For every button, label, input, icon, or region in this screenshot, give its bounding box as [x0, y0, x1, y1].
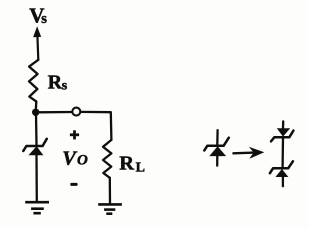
zener symbol single cathode bar — [204, 138, 229, 151]
wire Vs arrow up — [36, 36, 39, 60]
back-to-back zener bottom triangle — [275, 169, 288, 177]
back-to-back zener bottom lead — [282, 177, 284, 186]
wire terminal to RL corner — [81, 112, 112, 140]
svg-text:L: L — [136, 161, 145, 176]
wire zener to ground — [35, 155, 38, 202]
label minus — [70, 183, 77, 186]
svg-text:s: s — [41, 11, 47, 27]
node A junction dot — [32, 109, 39, 116]
ground right — [98, 204, 122, 213]
terminal open circle — [72, 108, 80, 116]
arrowhead Vs — [33, 26, 41, 37]
wire between back-to-back zeners — [281, 138, 284, 168]
svg-text:O: O — [77, 153, 88, 169]
back-to-back zener bottom cathode bar — [270, 161, 293, 173]
zener symbol single bottom lead — [216, 156, 218, 166]
svg-text:R: R — [119, 153, 134, 175]
zener diode D1 cathode bar — [23, 139, 47, 151]
ground left — [25, 202, 49, 213]
zener symbol single triangle — [209, 146, 226, 156]
node Vs label — [29, 3, 47, 27]
arrow equivalence — [233, 151, 255, 154]
svg-text:R: R — [48, 72, 63, 94]
svg-text:V: V — [62, 147, 78, 169]
wire node A to output terminal — [39, 111, 72, 114]
resistor Rs — [29, 60, 38, 102]
zener symbol single (right figure) top lead — [216, 130, 219, 144]
zener diode D1 triangle — [28, 146, 43, 155]
back-to-back zener top lead — [282, 121, 285, 128]
label Rs — [48, 72, 68, 94]
wire node A down to zener — [35, 114, 38, 145]
back-to-back zener top triangle — [277, 128, 290, 136]
svg-text:s: s — [62, 78, 68, 93]
label RL — [119, 153, 145, 176]
label Vo — [62, 147, 88, 169]
resistor RL — [103, 140, 111, 178]
label plus — [70, 130, 79, 139]
wire Rs to node A — [35, 102, 38, 111]
wire RL to ground — [109, 178, 111, 204]
back-to-back zener top cathode bar — [271, 131, 293, 142]
